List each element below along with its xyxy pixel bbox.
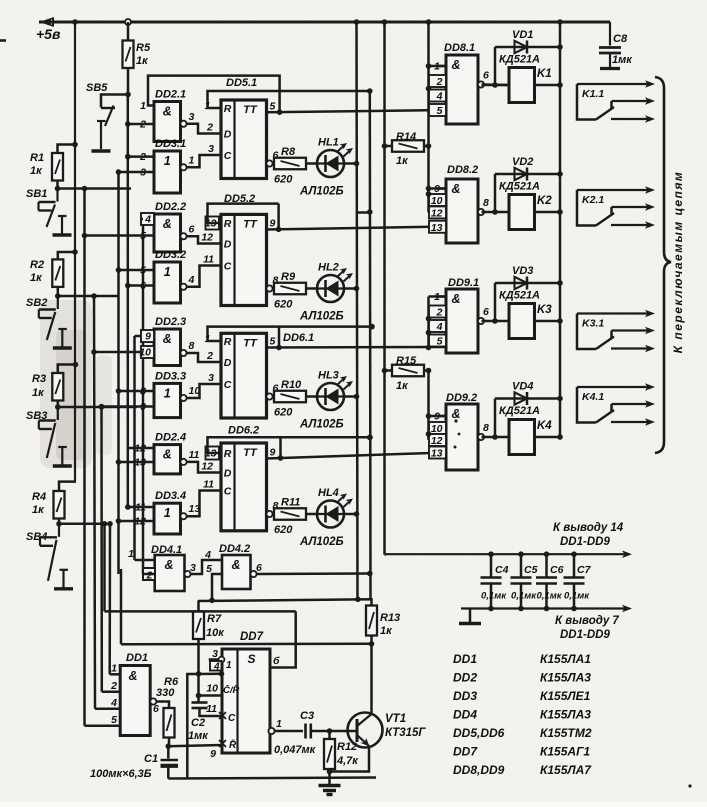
- svg-text:R10: R10: [281, 379, 302, 391]
- svg-text:2: 2: [206, 350, 213, 362]
- svg-text:АЛ102Б: АЛ102Б: [299, 419, 344, 431]
- wire DD4.2 pin5 to R13 line: [212, 574, 222, 600]
- wire DD5.2 R loop leg: [277, 204, 280, 230]
- wire C2 left leg: [187, 674, 198, 778]
- capacitor C7 0,1мк: [573, 554, 576, 577]
- svg-text:1мк: 1мк: [612, 54, 633, 66]
- resistor R4: [54, 491, 65, 519]
- svg-text:2: 2: [436, 76, 443, 88]
- svg-text:100мк×6,3Б: 100мк×6,3Б: [90, 768, 152, 780]
- svg-text:DD3.2: DD3.2: [155, 249, 186, 261]
- svg-text:&: &: [163, 105, 172, 119]
- wire R14 right: [424, 145, 429, 148]
- svg-text:R8: R8: [281, 146, 296, 158]
- resistor R15: [392, 365, 424, 377]
- svg-text:12: 12: [431, 207, 443, 219]
- svg-text:R̄: R̄: [229, 739, 237, 751]
- relay coil K1: [509, 68, 535, 103]
- DD3.4 output pin 13: [180, 513, 186, 519]
- svg-text:SB2: SB2: [26, 297, 47, 309]
- DD2.1 output pin 3: [180, 121, 186, 127]
- DD7 pins 3-4 input: [219, 657, 225, 663]
- wire DD6.2 R loop leg: [279, 437, 282, 458]
- svg-text:K3.1: K3.1: [582, 318, 604, 330]
- svg-text:0,1мк: 0,1мк: [481, 591, 507, 602]
- DD7 pin 9 R: [219, 740, 226, 747]
- wire R4 to SB4 row: [58, 519, 61, 524]
- wire R10 to HL3: [306, 395, 317, 398]
- NAND gate DD1: [120, 666, 150, 736]
- wire VD2 anode leg: [494, 174, 497, 212]
- svg-text:1к: 1к: [136, 55, 149, 67]
- DD3.3 output pin 10: [180, 395, 186, 401]
- DD6.1 inverted output pin 6: [266, 393, 272, 399]
- svg-text:R7: R7: [207, 613, 222, 625]
- svg-text:3: 3: [189, 111, 195, 123]
- svg-text:4: 4: [144, 214, 151, 226]
- svg-text:SB1: SB1: [26, 188, 47, 200]
- scan specks in DD9.2: [454, 419, 457, 422]
- diode VD4 КД521А: [495, 397, 560, 400]
- svg-text:4: 4: [110, 697, 117, 709]
- svg-text:К155ЛЕ1: К155ЛЕ1: [540, 689, 591, 703]
- node SB4: [56, 521, 62, 527]
- wire R6 to DD7 pin9: [168, 745, 222, 746]
- wire C2 bottom to pin 11: [200, 708, 222, 716]
- svg-text:10к: 10к: [206, 627, 225, 639]
- wire reset row: [121, 643, 372, 646]
- DD6.2 R input pin 13: [206, 447, 220, 460]
- capacitor C5 0,1мк: [520, 554, 523, 577]
- svg-text:8: 8: [483, 197, 489, 209]
- brace to switched circuits: [655, 77, 671, 453]
- wire SB1 bus to DD1 pin5: [83, 189, 86, 726]
- resistor R7 10к: [193, 612, 204, 640]
- svg-text:КД521А: КД521А: [499, 405, 540, 417]
- svg-text:0,047мк: 0,047мк: [274, 744, 317, 756]
- wire SB4 bus to DD1 pin1: [108, 524, 111, 675]
- svg-text:4: 4: [204, 549, 211, 561]
- wire R2 to SB2 row: [57, 287, 60, 296]
- wire bus A to bus B link: [357, 211, 370, 214]
- svg-text:КТ315Г: КТ315Г: [385, 727, 426, 739]
- svg-text:1к: 1к: [30, 272, 43, 284]
- svg-text:TT: TT: [243, 104, 258, 116]
- svg-text:11: 11: [206, 703, 217, 715]
- svg-text:4: 4: [213, 662, 220, 673]
- NAND gate DD2.2: [154, 214, 181, 252]
- wire R1 to SB1 row: [56, 181, 59, 189]
- ground at GND rail: [469, 609, 472, 623]
- svg-text:13: 13: [431, 448, 443, 460]
- svg-text:DD3.1: DD3.1: [155, 138, 186, 150]
- wire +5 bus C: [383, 22, 386, 555]
- svg-text:HL1: HL1: [318, 137, 339, 149]
- resistor R1: [52, 153, 63, 181]
- DD9.1 output pin 6: [478, 318, 484, 324]
- wire SB3 row: [58, 406, 137, 409]
- resistor R12 4,7к: [328, 731, 331, 739]
- NOR gate DD3.3: [154, 383, 181, 417]
- DD2.3 pin 9: [141, 330, 154, 342]
- LED HL3: [317, 383, 344, 410]
- wire bus to DD7 output line: [103, 524, 106, 612]
- svg-text:R1: R1: [30, 152, 44, 164]
- capacitor C4 0,1мк: [490, 554, 493, 577]
- NOR gate DD3.4: [154, 503, 181, 534]
- svg-text:2: 2: [436, 307, 443, 319]
- svg-text:C3: C3: [300, 710, 314, 722]
- wire SB2 bus to DD1 pin4: [94, 296, 95, 709]
- svg-text:&: &: [128, 669, 137, 683]
- diode VD2 КД521А: [495, 173, 560, 176]
- relay coil K3: [509, 304, 535, 339]
- svg-text:SB5: SB5: [86, 82, 108, 94]
- svg-text:9: 9: [270, 218, 276, 230]
- wire gate out to K4: [482, 436, 510, 439]
- svg-text:K2.1: K2.1: [582, 194, 604, 206]
- svg-text:DD8.1: DD8.1: [444, 42, 475, 54]
- svg-text:DD5,DD6: DD5,DD6: [453, 726, 505, 740]
- wire reset bus B: [369, 91, 372, 599]
- svg-text:11: 11: [203, 479, 214, 491]
- svg-text:12: 12: [431, 435, 443, 447]
- scan speck bottom right: [688, 784, 691, 787]
- relay coil K2: [509, 195, 535, 230]
- wire DD8.2 riser dots: [426, 186, 432, 192]
- wire DD2.2 out to DD5.2 D: [187, 236, 222, 243]
- svg-text:12: 12: [201, 461, 213, 473]
- svg-text:C: C: [224, 150, 232, 162]
- svg-text:C̄/R̄: C̄/R̄: [223, 685, 240, 696]
- svg-text:1: 1: [128, 548, 134, 560]
- svg-text:620: 620: [274, 524, 293, 536]
- svg-text:3: 3: [212, 648, 218, 660]
- DD9.1 pin 2: [429, 306, 446, 318]
- DD2.3 pin 10: [141, 346, 154, 358]
- wire R8 to HL1: [306, 162, 317, 165]
- svg-text:2: 2: [110, 680, 117, 692]
- svg-text:K4.1: K4.1: [582, 391, 604, 403]
- svg-text:12: 12: [201, 232, 213, 244]
- svg-text:C7: C7: [577, 564, 592, 576]
- svg-text:4: 4: [188, 274, 195, 286]
- svg-text:HL3: HL3: [318, 370, 339, 382]
- resistor R14: [392, 140, 424, 152]
- svg-text:3: 3: [208, 372, 214, 384]
- svg-text:DD1: DD1: [126, 652, 148, 664]
- svg-text:R4: R4: [32, 491, 46, 503]
- svg-text:3: 3: [190, 562, 196, 574]
- svg-text:DD8,DD9: DD8,DD9: [453, 763, 505, 777]
- wire DD6.1 R loop leg: [278, 327, 281, 348]
- NAND gate DD9.2: [446, 404, 478, 470]
- wire DD7 out6 riser: [270, 611, 296, 667]
- svg-text:K3: K3: [537, 304, 552, 316]
- svg-text:DD4.2: DD4.2: [219, 543, 250, 555]
- svg-text:R: R: [224, 218, 232, 230]
- svg-text:DD1-DD9: DD1-DD9: [560, 536, 610, 548]
- svg-text:6: 6: [153, 703, 159, 715]
- resistor R13 1к: [366, 606, 377, 636]
- node +5V at relay bus: [557, 19, 563, 25]
- svg-text:DD2.1: DD2.1: [155, 89, 186, 101]
- wire DD2.4 out to DD6.2 D: [187, 462, 222, 473]
- NAND gate DD2.3: [154, 329, 181, 366]
- svg-text:2: 2: [146, 570, 153, 582]
- svg-text:АЛ102Б: АЛ102Б: [299, 186, 344, 198]
- svg-text:1: 1: [164, 386, 171, 400]
- DD9.2 pin 10: [429, 422, 446, 434]
- wire gate out to K2: [482, 211, 510, 214]
- wire DD3.4 out to DD6.2 C: [187, 491, 222, 517]
- DD2.2 pin 4: [141, 213, 154, 225]
- svg-text:К переключаемым цепям: К переключаемым цепям: [671, 171, 685, 354]
- wire riser DD9.2: [427, 371, 430, 441]
- wire R14 left: [385, 145, 393, 148]
- svg-text:К155ЛА7: К155ЛА7: [540, 763, 592, 777]
- flip-flop DD6.1: [221, 333, 267, 418]
- svg-text:1: 1: [164, 506, 171, 520]
- flip-flop DD6.2: [221, 443, 267, 531]
- svg-text:5: 5: [111, 714, 117, 726]
- svg-text:+5в: +5в: [36, 26, 61, 42]
- svg-text:VD3: VD3: [512, 265, 533, 277]
- svg-text:1к: 1к: [32, 387, 45, 399]
- capacitor C6 0,1мк: [545, 554, 548, 577]
- DD8.1 pin 5: [429, 104, 446, 116]
- DD4.1 output pin 3: [184, 571, 190, 577]
- wire DD8.1 out to K1: [482, 83, 510, 86]
- NAND gate DD9.1: [446, 289, 478, 353]
- wire DD4.2 out strobe line: [257, 572, 372, 575]
- svg-text:R2: R2: [30, 259, 44, 271]
- wire gate out to K1: [482, 84, 510, 87]
- NAND gate DD2.4: [154, 445, 181, 474]
- svg-text:10: 10: [431, 195, 443, 207]
- NOR gate DD3.1: [154, 151, 181, 193]
- DD7 output pin 1: [268, 728, 274, 734]
- wire DD3.2 out to DD5.2 C: [187, 266, 222, 287]
- wire bus to reset line: [120, 569, 123, 644]
- svg-text:9: 9: [210, 748, 216, 760]
- svg-text:DD3.3: DD3.3: [155, 370, 186, 382]
- svg-text:VT1: VT1: [385, 713, 406, 725]
- svg-text:DD7: DD7: [453, 745, 478, 759]
- svg-text:9: 9: [270, 447, 276, 459]
- svg-text:К выводу 14: К выводу 14: [553, 522, 624, 534]
- svg-text:R11: R11: [281, 497, 300, 509]
- wire DD2.3 out to DD6.1 D: [187, 353, 222, 362]
- wire K1 to bus: [535, 84, 561, 87]
- wire DD9.2 riser dots: [426, 413, 432, 419]
- svg-text:HL4: HL4: [318, 487, 339, 499]
- svg-text:R9: R9: [281, 271, 296, 283]
- svg-text:10: 10: [206, 683, 218, 695]
- svg-text:R5: R5: [136, 42, 151, 54]
- svg-text:5: 5: [437, 105, 443, 117]
- svg-text:DD9.2: DD9.2: [446, 392, 477, 404]
- DD7 node pin row: [219, 671, 225, 677]
- svg-text:DD4.1: DD4.1: [151, 544, 182, 556]
- svg-text:C4: C4: [495, 564, 509, 576]
- wire DD5.1 feedback loop: [148, 76, 280, 113]
- svg-text:1: 1: [164, 265, 171, 279]
- svg-text:К155ЛА1: К155ЛА1: [540, 652, 591, 666]
- wire relay +5 bus: [559, 22, 562, 437]
- resistor R2: [52, 259, 63, 287]
- svg-text:620: 620: [274, 407, 293, 419]
- svg-text:2: 2: [206, 122, 213, 134]
- svg-text:DD6.2: DD6.2: [228, 425, 259, 437]
- svg-text:DD1-DD9: DD1-DD9: [560, 629, 610, 641]
- svg-text:D: D: [224, 468, 232, 480]
- svg-text:4,7к: 4,7к: [336, 755, 359, 767]
- svg-text:5: 5: [270, 336, 276, 348]
- svg-text:&: &: [163, 217, 172, 231]
- svg-text:8: 8: [483, 422, 489, 434]
- svg-text:11: 11: [203, 254, 214, 266]
- DD8.2 pin 12: [429, 206, 446, 218]
- wire DD7 pin1 to C3: [275, 730, 304, 733]
- flip-flop DD5.1: [221, 100, 267, 179]
- svg-text:DD2.2: DD2.2: [155, 201, 186, 213]
- svg-text:DD3: DD3: [453, 689, 477, 703]
- svg-text:DD9.1: DD9.1: [448, 277, 479, 289]
- svg-text:VD4: VD4: [512, 381, 533, 393]
- svg-text:1к: 1к: [30, 165, 43, 177]
- svg-text:&: &: [451, 182, 460, 196]
- resistor R11: [274, 508, 306, 520]
- DD5.2 inverted output pin 8: [266, 285, 272, 291]
- DD4.1 pin 2: [143, 568, 155, 580]
- svg-text:C: C: [224, 486, 232, 498]
- DD8.1 pin 4: [429, 90, 446, 102]
- DD8.1 pin 2: [429, 75, 446, 87]
- svg-text:R3: R3: [32, 373, 46, 385]
- DD9.2 output pin 8: [478, 434, 484, 440]
- wire SB3 bus to DD1 pin2: [100, 407, 103, 692]
- svg-text:330: 330: [156, 687, 175, 699]
- svg-text:1: 1: [111, 663, 117, 675]
- wire K2 to bus: [535, 211, 561, 214]
- svg-text:КД521А: КД521А: [499, 181, 540, 193]
- resistor R6 330: [164, 708, 175, 738]
- DD1 output pin 6: [150, 698, 156, 704]
- svg-text:DD2: DD2: [453, 671, 477, 685]
- DD9.1 pin 5: [429, 335, 446, 347]
- svg-text:&: &: [163, 448, 172, 462]
- wire R5 to SB5 node: [127, 68, 130, 95]
- svg-text:6: 6: [483, 306, 489, 318]
- wire SB2 row: [58, 295, 119, 298]
- wire Vcc rail to pin 14: [385, 553, 387, 556]
- svg-text:K4: K4: [537, 420, 552, 432]
- wire VD3 anode leg: [494, 283, 497, 321]
- wire GND rail pin 7: [461, 607, 628, 609]
- DD2.3 output pin 8: [180, 350, 186, 356]
- svg-text:1к: 1к: [396, 380, 409, 392]
- wire R7 top: [197, 601, 200, 612]
- svg-text:0,1мк: 0,1мк: [511, 591, 537, 602]
- svg-text:R13: R13: [380, 612, 400, 624]
- wire R13 bottom node: [370, 636, 373, 644]
- svg-text:DD5.1: DD5.1: [226, 77, 257, 89]
- wire VD1 anode leg: [494, 47, 497, 85]
- relay contacts K4.1: [577, 386, 651, 388]
- capacitor C8 1мк: [560, 21, 610, 24]
- wire DD1 out to R6: [156, 702, 169, 709]
- wire HL1 to LED bus: [344, 162, 357, 165]
- svg-text:К155АГ1: К155АГ1: [540, 745, 590, 759]
- svg-text:DD8.2: DD8.2: [447, 164, 478, 176]
- svg-text:R: R: [224, 336, 232, 348]
- svg-text:&: &: [451, 407, 460, 421]
- DD9.2 pin 13: [429, 447, 446, 459]
- svg-text:DD2.4: DD2.4: [155, 432, 186, 444]
- svg-text:C6: C6: [550, 564, 564, 576]
- wire HL2 to LED bus: [344, 287, 357, 290]
- LED HL1: [317, 150, 344, 177]
- svg-text:К155ТМ2: К155ТМ2: [540, 726, 592, 740]
- svg-text:C: C: [224, 261, 232, 273]
- wire DD7 out6 row: [105, 610, 296, 613]
- wire R15 left: [385, 369, 393, 372]
- wire R7 node to C2: [197, 674, 200, 702]
- svg-text:K2: K2: [537, 195, 552, 207]
- svg-text:DD6.1: DD6.1: [283, 332, 314, 344]
- svg-text:8: 8: [189, 340, 195, 352]
- capacitor C1 100мк: [167, 746, 170, 758]
- DD8.2 output pin 8: [478, 209, 484, 215]
- svg-text:&: &: [451, 58, 460, 72]
- wire LED cathode bus A: [357, 22, 358, 599]
- svg-text:4: 4: [436, 91, 443, 103]
- wire riser DD8: [427, 22, 430, 212]
- svg-text:0,1мк: 0,1мк: [537, 591, 563, 602]
- node SB3: [55, 404, 61, 410]
- resistor R5: [123, 41, 134, 69]
- transistor VT1 КТ315Г: [348, 713, 383, 748]
- NAND gate DD8.2: [446, 179, 478, 243]
- NAND gate DD8.1: [446, 55, 478, 124]
- wire DD4.1 out to DD4.2: [191, 560, 223, 574]
- svg-text:&: &: [164, 558, 173, 572]
- svg-text:DD3.4: DD3.4: [155, 490, 186, 502]
- node +5V at bus A: [354, 19, 360, 25]
- svg-text:10: 10: [139, 347, 151, 359]
- wire R3 to SB3 row: [57, 401, 60, 408]
- DD4.2 output pin 6: [250, 571, 256, 577]
- svg-text:C5: C5: [524, 564, 538, 576]
- svg-text:1: 1: [164, 154, 171, 168]
- resistor R8: [274, 158, 306, 170]
- svg-text:D: D: [224, 129, 232, 141]
- svg-text:1: 1: [189, 154, 195, 166]
- wire K3 to bus: [535, 320, 561, 323]
- DD2.2 output pin 6: [180, 233, 186, 239]
- svg-text:1к: 1к: [380, 625, 393, 637]
- wire gate bus F: [127, 95, 130, 508]
- DD3.2 output pin 4: [180, 284, 186, 290]
- svg-text:620: 620: [274, 299, 293, 311]
- node SB5: [125, 92, 131, 98]
- svg-text:C2: C2: [191, 717, 205, 729]
- wire R15 right: [424, 369, 429, 372]
- ground under R12: [328, 775, 331, 785]
- LED HL4: [317, 501, 344, 528]
- DD8.1 output pin 6: [478, 81, 484, 87]
